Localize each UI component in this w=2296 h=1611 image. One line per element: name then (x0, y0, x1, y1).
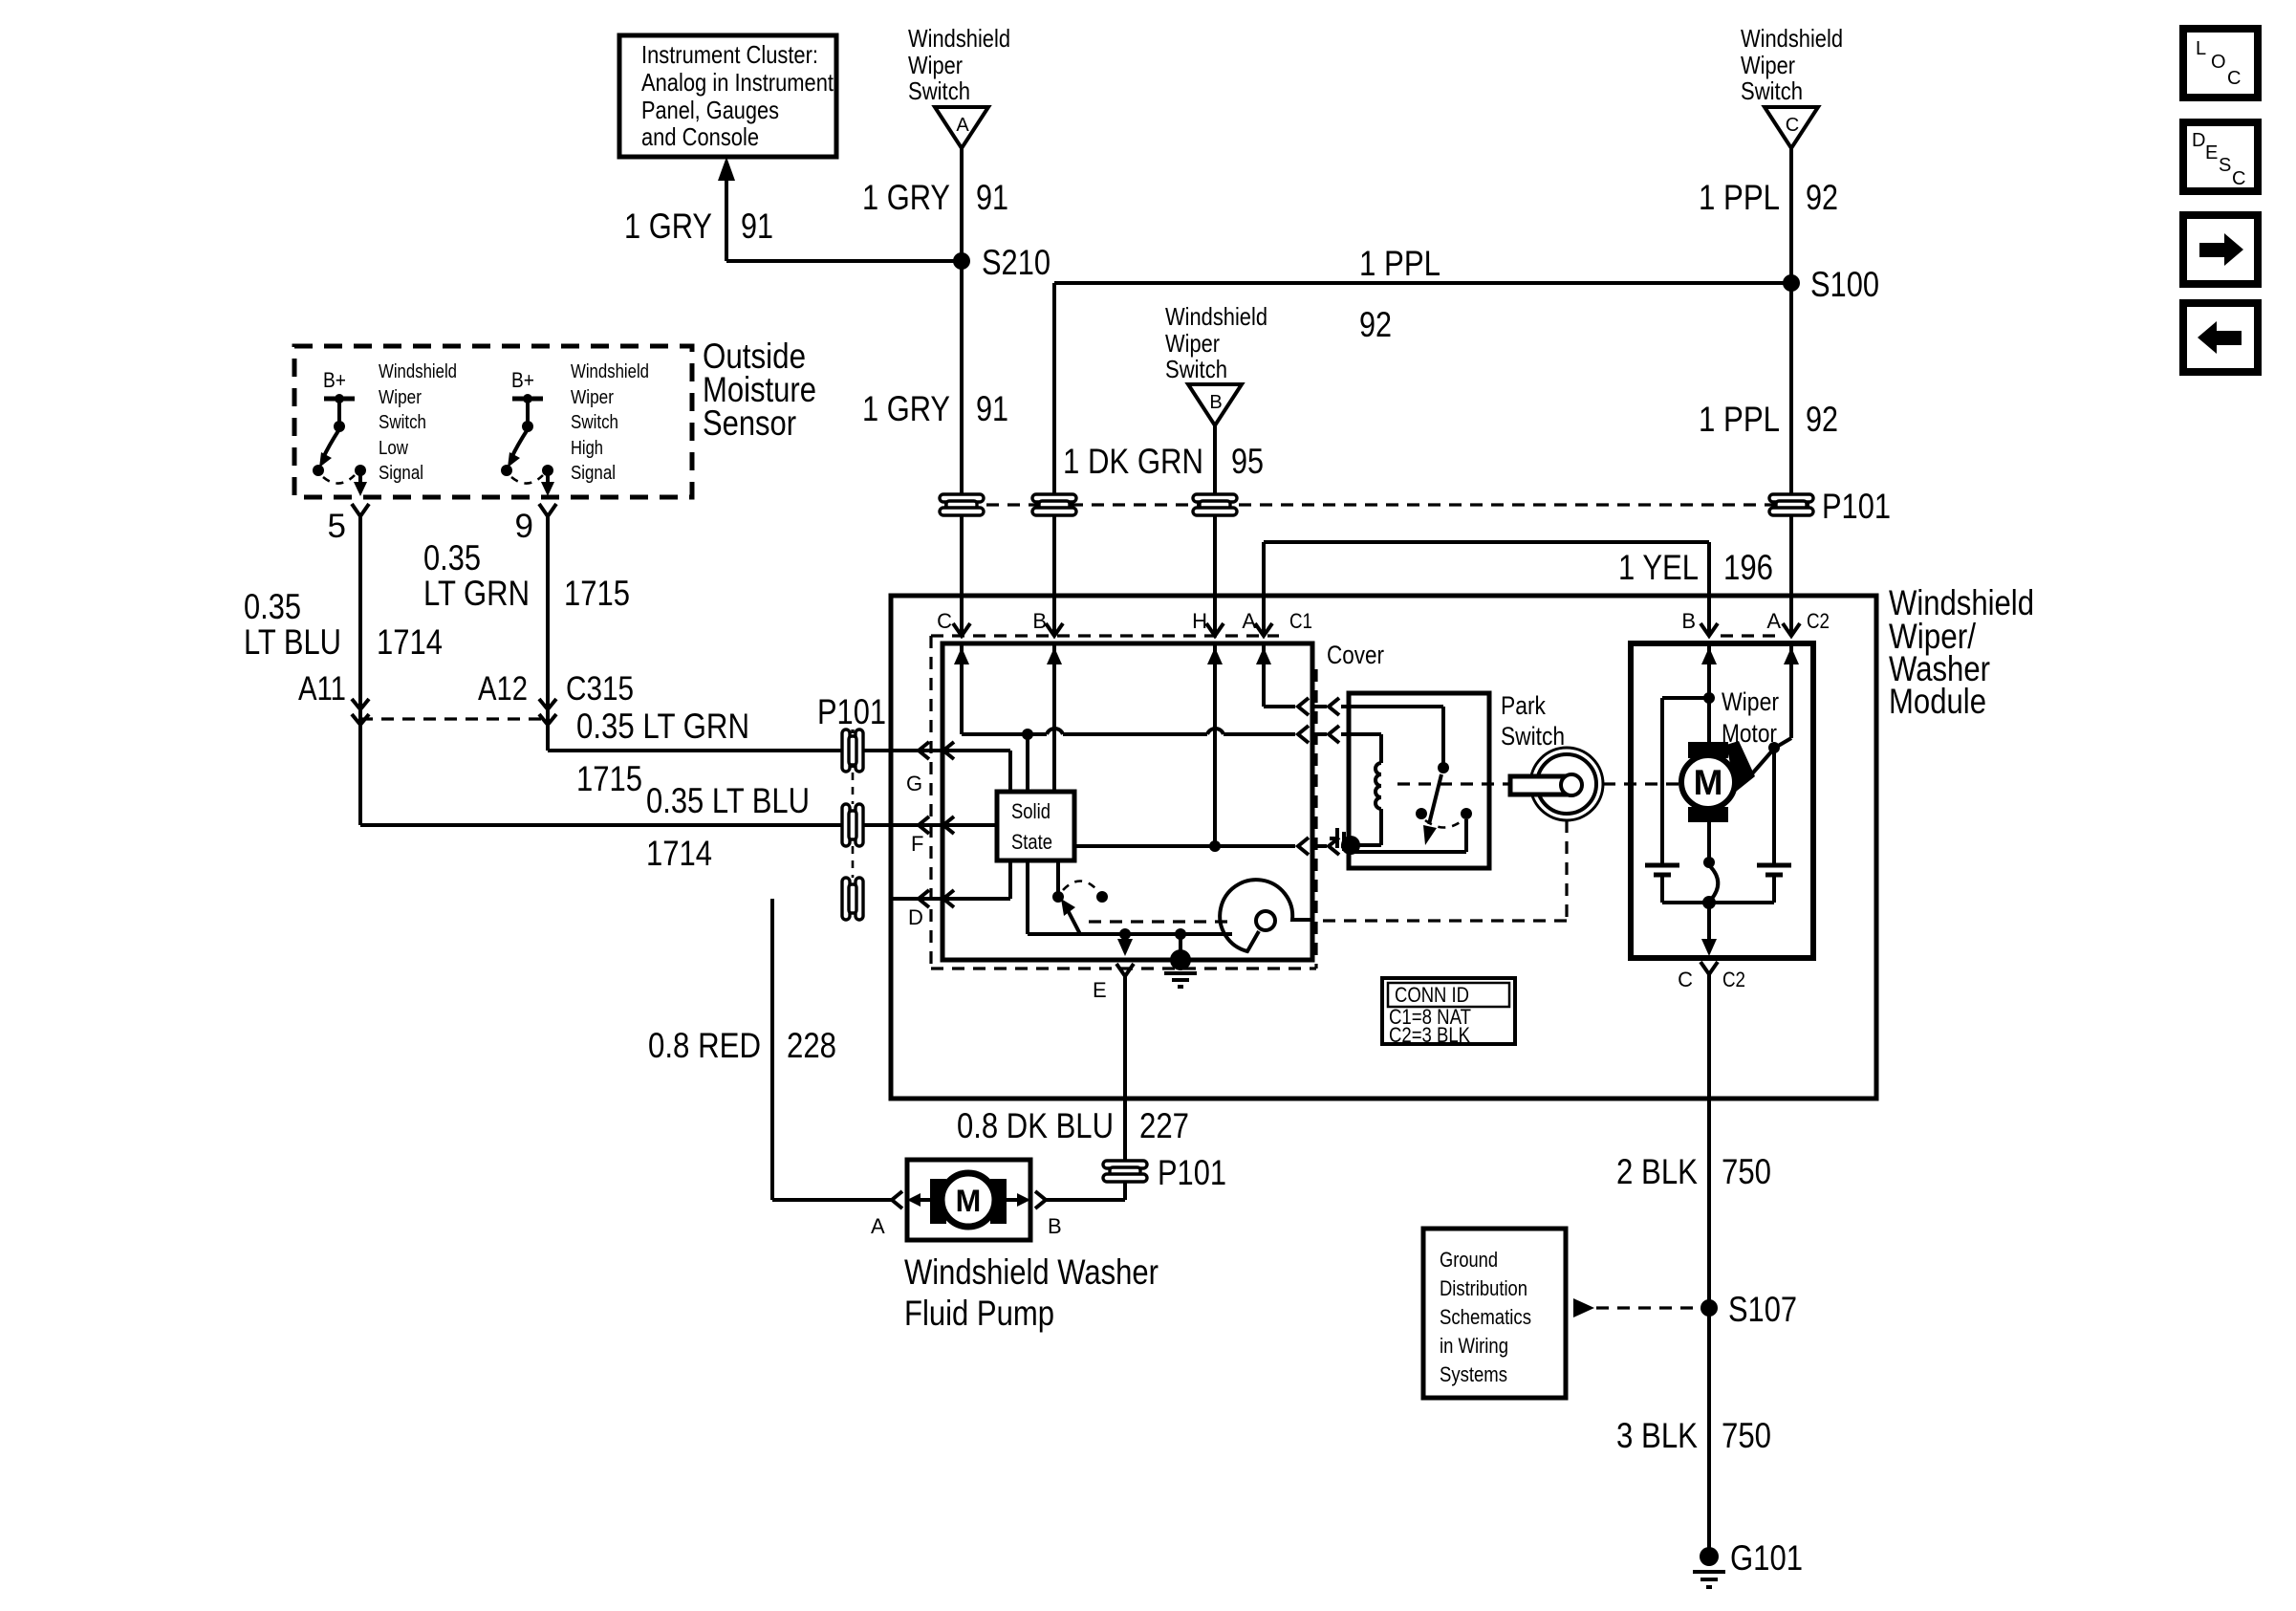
svg-text:P101: P101 (1822, 487, 1891, 526)
svg-text:Distribution: Distribution (1440, 1276, 1527, 1300)
svg-text:0.35: 0.35 (423, 538, 481, 577)
svg-text:Windshield: Windshield (1741, 24, 1843, 53)
svg-text:Park: Park (1501, 691, 1546, 720)
wire label 0.35 LT GRN 1715 (423, 538, 630, 613)
wire label 3 BLK 750 (1616, 1416, 1771, 1455)
wire label 1 GRY 91 (upper) (862, 178, 1008, 217)
connector P101 grommet on GRY wire (940, 494, 984, 515)
svg-text:in Wiring: in Wiring (1440, 1334, 1508, 1358)
svg-text:91: 91 (741, 207, 773, 246)
wire 1 DK GRN down to module pin H (1213, 425, 1217, 633)
svg-text:Cover: Cover (1327, 641, 1384, 669)
ground G101 (1693, 1538, 1803, 1587)
svg-text:C: C (1678, 968, 1693, 991)
svg-text:B: B (1048, 1214, 1062, 1238)
svg-text:196: 196 (1723, 548, 1773, 587)
svg-text:Low: Low (379, 438, 408, 459)
outside moisture sensor dashed box (294, 346, 692, 497)
pin C drop arrow (1701, 903, 1717, 956)
svg-text:1 PPL: 1 PPL (1359, 244, 1440, 283)
svg-text:S100: S100 (1810, 265, 1879, 304)
wire label 1 YEL 196 (1618, 548, 1773, 587)
mechanical dashed link park switch (1083, 784, 1681, 922)
svg-text:1715: 1715 (564, 574, 630, 613)
svg-text:C: C (2227, 68, 2241, 89)
svg-text:1714: 1714 (646, 834, 712, 873)
svg-text:LT BLU: LT BLU (244, 622, 341, 662)
label Windshield Washer Fluid Pump (904, 1252, 1159, 1333)
svg-text:Switch: Switch (908, 76, 970, 105)
pin H of C1 (1192, 609, 1224, 636)
connector P101 grommet on PPL branch wire (1032, 494, 1076, 515)
nav box DESC (2183, 122, 2258, 191)
wire label 1 GRY 91 (lower) (862, 389, 1008, 428)
svg-text:Wiper: Wiper (571, 387, 614, 408)
svg-text:CONN ID: CONN ID (1395, 983, 1469, 1007)
label windshield wiper switch low signal (379, 361, 457, 484)
svg-text:C2=3 BLK: C2=3 BLK (1389, 1023, 1470, 1047)
svg-text:Switch: Switch (379, 412, 426, 433)
conn id table (1382, 978, 1515, 1047)
high signal output arrow (541, 473, 554, 496)
svg-text:B: B (1681, 609, 1696, 633)
wire label 0.35 LT GRN 1715 (horizontal) (576, 707, 749, 798)
pin B of C1 (1032, 609, 1063, 636)
wire label 0.8 DK BLU 227 (957, 1106, 1189, 1145)
park switch fixed contacts (1416, 808, 1472, 828)
svg-text:1 PPL: 1 PPL (1699, 400, 1780, 439)
internal case ground (1164, 934, 1197, 987)
svg-text:A12: A12 (478, 670, 528, 708)
svg-text:Schematics: Schematics (1440, 1305, 1531, 1329)
svg-text:Module: Module (1889, 682, 1986, 721)
svg-text:5: 5 (328, 508, 346, 545)
svg-text:Switch: Switch (1165, 355, 1227, 383)
svg-text:State: State (1011, 830, 1052, 854)
wire 1 GRY from switch A down to module pin C (960, 148, 964, 633)
windshield wiper switch A title (908, 24, 1010, 105)
svg-text:Switch: Switch (1501, 722, 1565, 751)
svg-text:C: C (937, 609, 952, 633)
wire 0.35 LT BLU vertical (358, 516, 362, 825)
svg-text:D: D (2192, 130, 2205, 151)
park switch moving contact (1423, 762, 1449, 845)
svg-text:1 GRY: 1 GRY (862, 178, 950, 217)
pin C internal arrow (954, 643, 969, 734)
svg-text:S107: S107 (1728, 1290, 1797, 1329)
pin E connector (1093, 964, 1134, 1099)
pin E drop with arrow (1117, 934, 1133, 956)
svg-text:95: 95 (1231, 442, 1264, 481)
pin 9 connector (515, 504, 556, 545)
svg-text:1 PPL: 1 PPL (1699, 178, 1780, 217)
dashed reference arrow to S107 (1573, 1298, 1700, 1317)
motor common rail (1662, 822, 1774, 909)
windshield wiper washer module box (891, 596, 1876, 1099)
park switch case ground dot (1330, 828, 1360, 855)
connector P101 grommet pin D (842, 878, 863, 920)
connector A11 (298, 670, 369, 725)
svg-text:E: E (2205, 142, 2218, 163)
motor brush network right (1757, 748, 1791, 903)
splice S107 (1700, 1290, 1797, 1329)
park switch coil (1357, 763, 1381, 845)
svg-text:1 GRY: 1 GRY (862, 389, 950, 428)
svg-text:High: High (571, 438, 603, 459)
svg-text:Ground: Ground (1440, 1248, 1498, 1272)
svg-text:Panel, Gauges: Panel, Gauges (641, 96, 779, 124)
svg-text:Switch: Switch (1741, 76, 1803, 105)
motor brush network left (1645, 698, 1709, 903)
svg-text:and Console: and Console (641, 122, 759, 151)
pin G row (893, 742, 1010, 795)
wire 1 PPL from switch C down to module pin A C2 (1789, 148, 1793, 633)
svg-text:Analog in Instrument: Analog in Instrument (641, 68, 834, 97)
triangle connector A (935, 107, 988, 148)
svg-text:A: A (1766, 609, 1781, 633)
svg-text:H: H (1192, 609, 1207, 633)
svg-text:Wiper: Wiper (1722, 687, 1779, 716)
svg-text:750: 750 (1722, 1152, 1771, 1191)
svg-text:L: L (2196, 38, 2206, 59)
svg-text:C2: C2 (1807, 609, 1830, 633)
svg-text:Windshield: Windshield (571, 361, 649, 382)
wire label 0.8 RED 228 (648, 1026, 836, 1065)
svg-text:P101: P101 (1158, 1153, 1226, 1192)
pin F row (893, 816, 997, 856)
wire 0.8 DK BLU pump feed (1045, 1099, 1125, 1200)
svg-text:M: M (956, 1184, 982, 1218)
park switch box (1349, 693, 1489, 868)
pin D row (893, 860, 1010, 929)
connector P101 grommet on DK GRN wire (1193, 494, 1237, 515)
windshield wiper switch C title (1741, 24, 1843, 105)
wire label 0.35 LT BLU 1714 (horizontal) (646, 781, 810, 873)
svg-text:E: E (1093, 978, 1107, 1002)
label Wiper Motor (1722, 687, 1779, 748)
cam switch symbol (1220, 880, 1310, 951)
svg-text:B: B (1209, 392, 1222, 413)
svg-text:C2: C2 (1722, 968, 1745, 991)
svg-text:M: M (1694, 763, 1723, 802)
svg-text:1 DK GRN: 1 DK GRN (1063, 442, 1203, 481)
svg-text:G: G (906, 772, 922, 795)
svg-text:Motor: Motor (1722, 719, 1777, 748)
svg-text:Solid: Solid (1011, 799, 1051, 823)
svg-text:92: 92 (1806, 178, 1838, 217)
wire label 2 BLK 750 (1616, 1152, 1771, 1191)
svg-text:Switch: Switch (571, 412, 618, 433)
pin H internal arrow and wire (1207, 643, 1223, 846)
nav box next arrow (2183, 215, 2258, 284)
splice S210 (953, 243, 1051, 282)
wire 0.35 LT GRN vertical (546, 516, 550, 751)
svg-text:B+: B+ (323, 368, 346, 392)
wire pin C to park coil with hops (962, 726, 1381, 792)
svg-text:Sensor: Sensor (703, 403, 796, 443)
windshield washer fluid pump (871, 1160, 1062, 1240)
wire to instrument cluster with up arrow (718, 157, 962, 261)
connector A12 C315 (478, 670, 634, 725)
solid state output to park switch case (1074, 838, 1350, 855)
svg-text:1714: 1714 (377, 622, 443, 662)
internal ground rail (1028, 928, 1232, 940)
connector C2 pins at top (1681, 609, 1830, 636)
wire 0.35 LT BLU horizontal to pin F (360, 823, 997, 827)
svg-text:F: F (911, 832, 923, 856)
label Park Switch (1501, 691, 1565, 751)
connector P101 grommet pump (1103, 1161, 1147, 1182)
wire 0.8 RED pump return (772, 899, 893, 1200)
svg-text:227: 227 (1139, 1106, 1189, 1145)
solid state box (997, 792, 1074, 860)
svg-text:C: C (1786, 115, 1799, 136)
wire 1 PPL branch to module pin B C1 (1054, 283, 1791, 633)
pin A of C1 (1242, 609, 1272, 636)
wire label 1 DK GRN 95 (1063, 442, 1264, 481)
svg-text:Windshield Washer: Windshield Washer (904, 1252, 1159, 1292)
wire label 1 PPL 92 (lower) (1699, 400, 1838, 439)
park switch actuator circle (1510, 748, 1603, 820)
pin 5 connector (328, 504, 369, 545)
svg-text:91: 91 (976, 178, 1008, 217)
svg-text:D: D (908, 905, 923, 929)
nav box LOC (2183, 29, 2258, 98)
wire label 1 PPL 92 (branch) (1359, 244, 1440, 344)
svg-text:1 YEL: 1 YEL (1618, 548, 1699, 587)
B+ terminal (low switch) (323, 368, 355, 403)
pin C of C1 (937, 609, 970, 636)
wire label 0.35 LT BLU 1714 (244, 587, 443, 662)
svg-text:Windshield: Windshield (908, 24, 1010, 53)
wire label 1 GRY 91 (instrument cluster leg) (624, 207, 773, 246)
label windshield wiper switch high signal (571, 361, 649, 484)
svg-text:C1: C1 (1289, 609, 1312, 633)
wire 0.35 LT GRN horizontal to pin G (548, 749, 1010, 752)
pin A internal arrow (1775, 643, 1799, 748)
splice S100 (1783, 265, 1879, 304)
svg-text:92: 92 (1359, 305, 1392, 344)
internal relay contact (1052, 882, 1108, 935)
svg-text:0.35: 0.35 (244, 587, 301, 626)
park switch contact return to case (1351, 819, 1466, 852)
svg-text:A: A (956, 115, 969, 136)
svg-text:0.8 DK BLU: 0.8 DK BLU (957, 1106, 1114, 1145)
ground distribution reference box (1423, 1229, 1566, 1398)
svg-text:Signal: Signal (379, 463, 423, 484)
svg-text:B: B (1032, 609, 1047, 633)
dashed P101 bulkhead line (944, 503, 1809, 506)
wire 2 BLK to S107 (1707, 974, 1711, 1552)
dashed link between left grommets (852, 773, 855, 804)
svg-text:A11: A11 (298, 670, 346, 708)
connector C C2 at bottom (1678, 962, 1745, 991)
svg-text:S210: S210 (982, 243, 1051, 282)
svg-text:Wiper: Wiper (1165, 329, 1220, 358)
pin A internal arrow and wire to park switch (1256, 643, 1443, 765)
connector P101 grommet pin G (842, 729, 863, 773)
triangle connector B (1188, 384, 1242, 425)
svg-text:2 BLK: 2 BLK (1616, 1152, 1698, 1191)
connector P101 grommet pin F (842, 804, 863, 846)
wiper motor M (1681, 741, 1780, 822)
switch high contacts (501, 465, 553, 484)
windshield wiper switch B title (1165, 302, 1267, 383)
svg-text:Wiper: Wiper (379, 387, 422, 408)
svg-text:1 GRY: 1 GRY (624, 207, 712, 246)
nav box previous arrow (2183, 303, 2258, 372)
svg-text:Wiper: Wiper (1741, 51, 1795, 79)
svg-text:Signal: Signal (571, 463, 616, 484)
svg-text:P101: P101 (817, 692, 886, 731)
svg-text:C315: C315 (566, 670, 634, 708)
svg-text:G101: G101 (1730, 1538, 1803, 1578)
pin B internal arrow (1701, 643, 1717, 744)
dashed connector line A11-A12 (360, 717, 548, 720)
svg-text:91: 91 (976, 389, 1008, 428)
switch low contacts (313, 465, 366, 484)
label Windshield Wiper Washer Module (1889, 583, 2034, 721)
svg-text:Systems: Systems (1440, 1362, 1507, 1386)
wiper motor box (1631, 643, 1813, 958)
svg-text:LT GRN: LT GRN (423, 574, 530, 613)
svg-text:Wiper: Wiper (908, 51, 963, 79)
pin B internal arrow and wire to solid state (1047, 643, 1062, 792)
switch low arm (319, 399, 345, 468)
wire 1 YEL loop (1264, 542, 1709, 633)
cover box (942, 643, 1312, 960)
svg-text:A: A (871, 1214, 885, 1238)
svg-text:1715: 1715 (576, 759, 642, 798)
connector P101 grommet on PPL wire (1769, 494, 1813, 515)
svg-text:0.35 LT BLU: 0.35 LT BLU (646, 781, 810, 820)
svg-text:228: 228 (787, 1026, 836, 1065)
svg-text:Instrument Cluster:: Instrument Cluster: (641, 40, 818, 69)
svg-text:Fluid Pump: Fluid Pump (904, 1294, 1054, 1333)
B+ terminal (high switch) (511, 368, 543, 403)
svg-text:B+: B+ (511, 368, 534, 392)
svg-text:Windshield: Windshield (1165, 302, 1267, 331)
svg-text:3 BLK: 3 BLK (1616, 1416, 1698, 1455)
triangle connector C (1765, 107, 1818, 148)
svg-text:A: A (1242, 609, 1256, 633)
label Outside Moisture Sensor (703, 337, 816, 443)
svg-text:9: 9 (515, 508, 533, 545)
svg-text:92: 92 (1806, 400, 1838, 439)
svg-text:750: 750 (1722, 1416, 1771, 1455)
svg-text:C: C (2232, 168, 2245, 189)
svg-text:Windshield: Windshield (379, 361, 457, 382)
svg-text:O: O (2211, 52, 2226, 73)
solid state bottom leads (1028, 860, 1058, 934)
svg-text:S: S (2219, 155, 2231, 176)
connector C1 dashed boundary (931, 636, 1316, 969)
svg-text:0.8 RED: 0.8 RED (648, 1026, 761, 1065)
svg-text:0.35 LT GRN: 0.35 LT GRN (576, 707, 749, 746)
instrument cluster box (619, 35, 836, 157)
low signal output arrow (354, 473, 367, 496)
switch high arm (508, 399, 533, 468)
wire label 1 PPL 92 (upper) (1699, 178, 1838, 217)
